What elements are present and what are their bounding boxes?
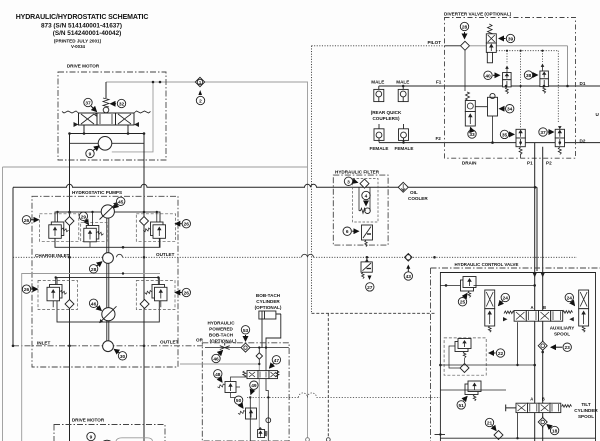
svg-text:CYLINDER: CYLINDER bbox=[256, 299, 280, 304]
return riser to control valve bbox=[536, 187, 538, 271]
relief valve upper-right dashed box bbox=[136, 214, 175, 242]
control valve inner solid box bbox=[440, 273, 595, 441]
bobtach wires lower bbox=[250, 379, 268, 441]
svg-text:43: 43 bbox=[406, 274, 412, 280]
junction dots F1 line bbox=[505, 85, 508, 88]
junction dots bobtach top bbox=[258, 346, 260, 348]
svg-text:D2: D2 bbox=[580, 138, 586, 143]
breakaway symbol bbox=[220, 343, 230, 350]
P2 wire bbox=[542, 147, 544, 441]
svg-text:CHARGE INLET: CHARGE INLET bbox=[35, 253, 70, 258]
filter bypass valve bbox=[362, 225, 373, 247]
motor loop wires bbox=[70, 125, 145, 134]
balloon 26 lower-right bbox=[175, 288, 190, 296]
gray drain curve bottom motor bbox=[116, 438, 153, 441]
svg-text:DRIVE MOTOR: DRIVE MOTOR bbox=[72, 418, 105, 423]
balloon 37 diverter bbox=[539, 128, 554, 136]
svg-text:HYDRAULIC CONTROL VALVE: HYDRAULIC CONTROL VALVE bbox=[455, 262, 519, 267]
svg-text:A: A bbox=[531, 305, 534, 310]
balloon 22 bbox=[489, 349, 505, 357]
svg-text:29: 29 bbox=[81, 214, 87, 220]
balloon 18 bbox=[547, 425, 559, 435]
svg-text:2: 2 bbox=[199, 99, 202, 105]
cylinder wires bbox=[262, 314, 281, 348]
pilot dashed drop to bottom bbox=[327, 313, 329, 437]
svg-text:30: 30 bbox=[120, 354, 126, 360]
junction dot gray bus bbox=[122, 272, 124, 274]
svg-text:27: 27 bbox=[367, 285, 373, 291]
svg-text:26: 26 bbox=[24, 218, 30, 224]
balloon 9 bbox=[86, 146, 99, 158]
svg-text:24: 24 bbox=[567, 296, 573, 302]
svg-text:50: 50 bbox=[236, 398, 242, 404]
relief 25 bus wire bbox=[440, 284, 534, 286]
relief valve upper-right bbox=[143, 211, 165, 248]
balloon 29 bbox=[79, 212, 88, 224]
balloon 30 bbox=[114, 349, 126, 360]
relief valve middle dashed box bbox=[81, 223, 108, 242]
wire hcv bottom bbox=[440, 437, 595, 439]
junction dots pumps top bbox=[68, 211, 71, 214]
bob-tach cylinder bbox=[259, 311, 281, 319]
charge line left vertical wire bbox=[12, 188, 14, 346]
svg-text:PILOT: PILOT bbox=[427, 40, 441, 45]
svg-text:F1: F1 bbox=[436, 80, 442, 85]
svg-text:F2: F2 bbox=[436, 136, 442, 141]
balloon 32 bbox=[111, 99, 126, 107]
wire bobtach top bbox=[205, 347, 289, 349]
filter bypass check diamond bbox=[360, 179, 369, 188]
P1 wire bbox=[534, 143, 536, 441]
svg-text:21: 21 bbox=[487, 421, 493, 427]
bottom valve bobtach bbox=[258, 427, 268, 438]
gray case drain bus bbox=[22, 274, 160, 441]
svg-text:6: 6 bbox=[346, 229, 349, 235]
balloon 45 bbox=[114, 197, 125, 208]
svg-text:OUTLET: OUTLET bbox=[160, 340, 179, 345]
junction dots relief bus bbox=[445, 284, 448, 287]
check diamond lower-left bbox=[65, 300, 74, 309]
right trunk wire bbox=[143, 134, 145, 441]
balloon 26 upper-right bbox=[175, 220, 190, 228]
left trunk wire bbox=[69, 134, 71, 441]
diverter solenoid valve bbox=[486, 24, 496, 63]
port relief 22 dashed box bbox=[444, 338, 486, 375]
variable pump bottom bbox=[99, 306, 116, 323]
pilot gray wire right bbox=[470, 46, 568, 86]
svg-text:34: 34 bbox=[507, 107, 513, 113]
port relief 22 bbox=[449, 339, 471, 369]
svg-text:MALE: MALE bbox=[396, 80, 409, 85]
svg-text:4: 4 bbox=[365, 194, 368, 200]
gray drain to bobtach bbox=[180, 363, 259, 365]
svg-text:3: 3 bbox=[347, 179, 350, 185]
filter inner dashed box bbox=[353, 179, 379, 223]
svg-text:POWERED: POWERED bbox=[209, 327, 233, 332]
filter element circle bbox=[365, 208, 371, 214]
pumps outer dashed box bbox=[32, 196, 178, 367]
balloon 49 bbox=[250, 381, 258, 394]
svg-text:32: 32 bbox=[119, 102, 125, 108]
bottom pump circle bbox=[103, 341, 114, 352]
diverter dashed box bbox=[445, 18, 576, 159]
svg-text:51: 51 bbox=[459, 403, 465, 409]
svg-text:COOLER: COOLER bbox=[408, 196, 428, 201]
balloon 24 right bbox=[565, 293, 574, 305]
port relief 22 check bbox=[460, 364, 469, 373]
svg-text:24: 24 bbox=[503, 296, 509, 302]
bob-tach dashed box bbox=[202, 343, 289, 441]
svg-text:18: 18 bbox=[552, 429, 558, 435]
pilot dotted wire top bbox=[312, 45, 445, 47]
wire valve35 down bbox=[520, 154, 522, 159]
svg-text:B: B bbox=[543, 305, 546, 310]
balloon 33 bbox=[468, 128, 476, 139]
balloon 4 bbox=[362, 191, 370, 205]
svg-text:OIL: OIL bbox=[410, 190, 418, 195]
shuttle spool wire bbox=[105, 82, 107, 98]
svg-text:D1: D1 bbox=[580, 81, 586, 86]
balloon 51 bbox=[457, 397, 467, 410]
svg-text:9: 9 bbox=[89, 152, 92, 158]
balloon 34 bbox=[500, 105, 514, 113]
drive motor circle bbox=[98, 137, 112, 151]
relief valve lower-left dashed box bbox=[38, 281, 78, 310]
check valve 23 bbox=[538, 340, 547, 351]
relief valve upper-left bbox=[49, 211, 69, 248]
svg-text:TILT: TILT bbox=[581, 402, 591, 407]
junction dots pilot bus bbox=[506, 50, 508, 52]
balloon 50 bbox=[234, 396, 243, 408]
svg-text:DIVERTER VALVE (OPTIONAL): DIVERTER VALVE (OPTIONAL) bbox=[444, 12, 512, 17]
svg-text:873 (S/N 514140001-41637): 873 (S/N 514140001-41637) bbox=[41, 22, 122, 29]
balloon 26 lower-left bbox=[22, 285, 37, 293]
wire check to valve33 bbox=[464, 50, 466, 91]
balloon 39 bbox=[499, 34, 515, 42]
F2 wire bbox=[379, 142, 600, 144]
svg-text:U: U bbox=[596, 112, 600, 117]
dotted pilot hump bbox=[299, 393, 317, 398]
svg-text:A: A bbox=[530, 397, 533, 402]
svg-text:AUXILIARY: AUXILIARY bbox=[550, 326, 575, 331]
pilot dotted wire horizontal to control valve bbox=[312, 312, 435, 314]
P arrows into valve bbox=[533, 273, 545, 278]
wire hcv mid1 bbox=[440, 364, 534, 366]
balloon 38 bbox=[524, 71, 537, 79]
oil cooler diamond bbox=[398, 182, 408, 192]
bobtach vertical wires bbox=[259, 348, 266, 371]
drive motor crossover valve bbox=[62, 111, 151, 127]
main return wire y=187 bbox=[13, 184, 537, 187]
orifice diamond on gray wire bbox=[195, 77, 204, 86]
svg-text:26: 26 bbox=[184, 222, 190, 228]
junction dots F2 line bbox=[519, 141, 522, 144]
svg-text:MALE: MALE bbox=[371, 80, 384, 85]
svg-text:BOB-TACH: BOB-TACH bbox=[256, 293, 281, 298]
svg-text:HYDRAULIC: HYDRAULIC bbox=[207, 321, 235, 326]
svg-text:26: 26 bbox=[24, 287, 30, 293]
wire tilt A port down bbox=[517, 413, 519, 439]
wire hcv mid2 bbox=[440, 389, 506, 391]
svg-text:(REAR QUICK: (REAR QUICK bbox=[371, 110, 402, 115]
tilt spool valve bbox=[506, 403, 572, 412]
gray drain wire left loop bbox=[3, 167, 308, 441]
svg-text:45: 45 bbox=[118, 199, 124, 205]
gray drive motor drain wire bbox=[112, 82, 153, 152]
bob-tach valve bbox=[243, 371, 279, 379]
balloon 37 bbox=[84, 98, 97, 111]
balloon 46 bbox=[89, 299, 101, 310]
svg-text:26: 26 bbox=[184, 291, 190, 297]
relief valve middle bbox=[84, 211, 104, 248]
relief valve lower-left bbox=[47, 276, 67, 307]
pilot wire to valve bbox=[445, 45, 461, 47]
balloon 28 diverter bbox=[460, 22, 468, 38]
valve 38 bbox=[540, 64, 549, 94]
balloon 40 bbox=[484, 71, 500, 79]
female coupler 2 bbox=[399, 124, 409, 142]
balloon 6 bbox=[343, 227, 359, 235]
male coupler 1 bbox=[374, 86, 384, 102]
balloon 2 bbox=[196, 90, 204, 105]
svg-text:(S/N 514240001-40042): (S/N 514240001-40042) bbox=[53, 30, 122, 37]
relief valve 48 bbox=[217, 377, 247, 398]
junction dot return riser bbox=[534, 186, 537, 189]
check diamond left trunk bbox=[65, 217, 74, 226]
balloon 43 bbox=[404, 265, 412, 281]
svg-text:23: 23 bbox=[565, 345, 571, 351]
aux solenoid right bbox=[579, 290, 589, 332]
svg-text:39: 39 bbox=[508, 37, 514, 43]
balloon 35 bbox=[500, 130, 514, 138]
svg-text:SPOOL: SPOOL bbox=[554, 332, 570, 337]
relief valve 51 bbox=[465, 381, 481, 401]
F1 wire bbox=[379, 85, 600, 87]
auxiliary spool valve bbox=[503, 311, 574, 322]
balloon 9 bottom bbox=[87, 432, 95, 440]
svg-text:48: 48 bbox=[215, 372, 221, 378]
valve 40 bbox=[503, 66, 512, 94]
charge distribution dash-dot wire bbox=[13, 256, 577, 258]
lower pump block solid box bbox=[57, 278, 159, 323]
svg-text:37: 37 bbox=[540, 130, 546, 136]
charge bypass valve below filter bbox=[361, 258, 372, 280]
svg-text:28: 28 bbox=[91, 267, 97, 273]
valve 37 bbox=[555, 126, 564, 154]
inlet dash-dot wire bbox=[13, 345, 203, 347]
balloon 28 bbox=[89, 262, 101, 273]
bobtach check ball bbox=[266, 418, 271, 423]
drive motor dashed box bbox=[58, 72, 166, 160]
relief valve lower-right dashed box bbox=[136, 281, 175, 310]
svg-text:CYLINDER: CYLINDER bbox=[574, 408, 598, 413]
balloon 25 bbox=[458, 294, 467, 306]
svg-text:25: 25 bbox=[460, 300, 466, 306]
check valve 18 bbox=[538, 416, 547, 428]
svg-text:P1: P1 bbox=[527, 161, 533, 166]
svg-text:HYDRAULIC/HYDROSTATIC SCHEMATI: HYDRAULIC/HYDROSTATIC SCHEMATIC bbox=[16, 14, 149, 21]
upper pump block solid box bbox=[55, 212, 160, 247]
bobtach check diamond mid bbox=[256, 353, 262, 359]
balloon 23 bbox=[551, 343, 571, 351]
pilot dotted branch bus bbox=[496, 51, 558, 128]
bottom drive motor dashed box bbox=[54, 425, 165, 441]
svg-text:B: B bbox=[542, 397, 545, 402]
balloon 46 bobtach bbox=[212, 351, 223, 363]
variable pump top bbox=[100, 202, 118, 219]
junction dots hcv bbox=[439, 364, 442, 367]
motor stub wires bbox=[70, 142, 145, 144]
pump shaft double wire bbox=[107, 218, 109, 341]
port tick at control box edge bbox=[435, 434, 446, 436]
junction dot pilot start bbox=[249, 396, 251, 398]
component 34 bbox=[475, 93, 497, 142]
svg-text:9: 9 bbox=[90, 435, 93, 441]
junction dot male2 bbox=[402, 85, 405, 88]
svg-text:FEMALE: FEMALE bbox=[370, 146, 389, 151]
svg-text:(PRINTED JULY 2001): (PRINTED JULY 2001) bbox=[54, 38, 102, 43]
balloon 26 upper-left bbox=[22, 216, 38, 224]
junction dot inlet bbox=[12, 345, 15, 348]
junction dot female2 bbox=[402, 141, 405, 144]
pilot valve 33 bbox=[465, 92, 475, 126]
bob-tach inlet diamond bbox=[241, 343, 250, 352]
ball check valve on charge wire bbox=[405, 254, 413, 262]
svg-text:40: 40 bbox=[485, 73, 491, 79]
svg-text:47: 47 bbox=[274, 358, 280, 364]
bottom motor circle bbox=[100, 440, 114, 441]
pilot check diamond bbox=[461, 41, 470, 50]
gray drain wire from drive motor bbox=[106, 82, 308, 438]
junction dots charge wire bbox=[366, 256, 369, 259]
svg-text:22: 22 bbox=[498, 351, 504, 357]
balloon 24 left bbox=[499, 293, 510, 305]
svg-text:38: 38 bbox=[526, 73, 532, 79]
pilot dotted wire vertical bbox=[311, 46, 313, 314]
junction dots motor loop bbox=[68, 132, 71, 135]
svg-text:BOB-TACH: BOB-TACH bbox=[209, 333, 234, 338]
check diamond lower-right bbox=[140, 300, 149, 309]
relief valve upper-left dashed box bbox=[40, 214, 79, 242]
aux solenoid left bbox=[485, 290, 495, 332]
balloon 53 bbox=[241, 326, 249, 341]
dotted pilot to control valve lower bbox=[247, 396, 440, 398]
svg-text:37: 37 bbox=[85, 101, 91, 107]
male coupler 2 bbox=[398, 86, 408, 102]
control valve dashed box bbox=[431, 268, 600, 441]
svg-text:OUTLET: OUTLET bbox=[156, 252, 175, 257]
shuttle check ball bbox=[103, 107, 109, 113]
wire aux A port down bbox=[517, 322, 519, 365]
svg-text:DRIVE MOTOR: DRIVE MOTOR bbox=[67, 64, 100, 69]
svg-text:SPOOL: SPOOL bbox=[578, 414, 594, 419]
svg-text:49: 49 bbox=[251, 383, 257, 389]
gray wire bobtach valve bbox=[258, 364, 260, 430]
balloon 48 bbox=[214, 370, 222, 382]
filter dashed box bbox=[333, 175, 388, 245]
main relief valve 25 bbox=[461, 277, 477, 298]
female coupler 1 bbox=[374, 124, 384, 142]
charge pump circle bbox=[103, 253, 114, 264]
balloon 47 bbox=[270, 356, 281, 368]
charge wire hump over gray/pilot verticals bbox=[117, 254, 314, 257]
svg-text:28: 28 bbox=[462, 25, 468, 31]
svg-text:46: 46 bbox=[91, 301, 97, 307]
balloon 21 bbox=[485, 418, 496, 430]
svg-text:COUPLERS): COUPLERS) bbox=[372, 116, 400, 121]
svg-text:FEMALE: FEMALE bbox=[395, 146, 414, 151]
svg-text:DRAIN: DRAIN bbox=[462, 161, 477, 166]
valve 35 bbox=[516, 129, 525, 154]
filter element loop bbox=[359, 187, 370, 213]
relief valve lower-right bbox=[145, 276, 167, 307]
svg-text:HYDROSTATIC PUMPS: HYDROSTATIC PUMPS bbox=[72, 190, 122, 195]
junction on gray wire bbox=[152, 81, 155, 84]
svg-text:V-0034: V-0034 bbox=[71, 44, 85, 49]
svg-text:35: 35 bbox=[502, 132, 508, 138]
svg-text:INLET: INLET bbox=[37, 341, 50, 346]
balloon 3 bbox=[344, 177, 357, 185]
svg-text:(OPTIONAL): (OPTIONAL) bbox=[255, 305, 282, 310]
relief valve 50 bbox=[238, 408, 257, 419]
shuttle relief spring bbox=[103, 98, 109, 107]
svg-text:HYDRAULIC FILTER: HYDRAULIC FILTER bbox=[335, 170, 380, 175]
svg-text:53: 53 bbox=[243, 328, 249, 334]
diamond 21 bbox=[494, 431, 503, 440]
balloon 27 bbox=[366, 283, 374, 291]
balloon 1 bbox=[197, 79, 202, 85]
junction dot gray start bbox=[159, 81, 162, 84]
svg-text:33: 33 bbox=[469, 132, 475, 138]
check diamond right trunk bbox=[140, 217, 149, 226]
svg-text:OR: OR bbox=[196, 338, 204, 343]
svg-text:46: 46 bbox=[213, 357, 219, 363]
svg-text:P2: P2 bbox=[546, 161, 552, 166]
